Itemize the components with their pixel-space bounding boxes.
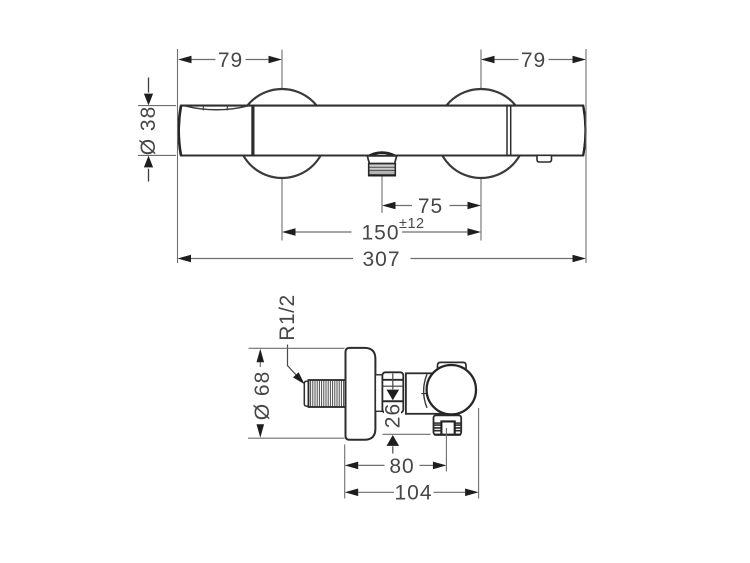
label R1/2 <box>276 294 305 384</box>
inlet pipe end cap <box>304 381 308 406</box>
hose outlet shoulder lines <box>434 422 442 424</box>
svg-text:±12: ±12 <box>399 216 425 232</box>
svg-text:307: 307 <box>362 248 400 271</box>
mixer body bar <box>179 106 586 156</box>
dimension 79 right <box>481 49 586 72</box>
right S-connection circle <box>437 89 526 178</box>
top mounting tab <box>438 362 467 374</box>
extension line hose outlet center <box>445 428 447 472</box>
grip tick 2 <box>226 106 228 111</box>
extension line right (x=586) <box>585 49 587 263</box>
dimension 104 <box>345 482 479 505</box>
hose outlet bottom edge <box>434 434 461 436</box>
svg-text:R1/2: R1/2 <box>276 294 299 340</box>
centerline right circle <box>480 50 482 241</box>
body left edge (thick) <box>179 106 181 156</box>
dimension 75 <box>382 195 481 218</box>
clip on bottom of right cap <box>537 155 552 162</box>
knob skirt arc <box>424 374 427 408</box>
dimension 307 <box>178 248 587 271</box>
svg-text:150: 150 <box>362 221 400 244</box>
dimension diameter 68 <box>248 348 345 438</box>
svg-text:Ø 68: Ø 68 <box>251 371 274 421</box>
hose outlet thread lines right <box>455 425 461 431</box>
extension line knob right edge <box>478 408 480 499</box>
dimension 80 <box>345 455 447 478</box>
centerline left circle <box>281 50 283 241</box>
dimension 150 +-12 <box>282 216 481 244</box>
svg-text:Ø 38: Ø 38 <box>137 106 160 156</box>
outlet collar trapezoid <box>367 156 396 164</box>
dimension diameter 38 <box>137 78 176 182</box>
valve body <box>406 373 453 414</box>
svg-text:75: 75 <box>418 195 443 218</box>
dimension 26 <box>382 374 431 454</box>
extension line left (x=177.5) <box>177 49 179 263</box>
svg-text:80: 80 <box>389 455 414 478</box>
hose outlet center bridge <box>441 421 454 434</box>
dimension 79 left <box>178 49 282 72</box>
hose outlet thread lines left <box>434 425 442 431</box>
left S-connection circle <box>238 89 327 178</box>
bottom hose outlet box <box>434 415 462 435</box>
svg-text:79: 79 <box>218 49 243 72</box>
grip tick 1 <box>202 106 204 111</box>
centerline outlet <box>381 177 383 214</box>
svg-text:26: 26 <box>382 403 405 428</box>
handle grip arc on top of left cap <box>185 106 249 110</box>
handle/body separator line <box>251 106 254 156</box>
body right edge (thick) <box>583 106 585 156</box>
temperature knob (side) <box>427 365 476 414</box>
outlet threaded nipple <box>368 164 396 176</box>
extension line escutcheon face <box>344 445 346 499</box>
outlet arc bump on body bottom <box>370 153 395 156</box>
union nut <box>382 372 403 412</box>
right cap separator double line <box>506 106 508 156</box>
svg-text:104: 104 <box>394 482 432 505</box>
wall escutcheon (diameter 68) <box>346 348 376 440</box>
svg-text:79: 79 <box>521 49 546 72</box>
body neck between escutcheon and union nut <box>375 375 382 412</box>
threaded inlet pipe R1/2 <box>309 380 346 407</box>
